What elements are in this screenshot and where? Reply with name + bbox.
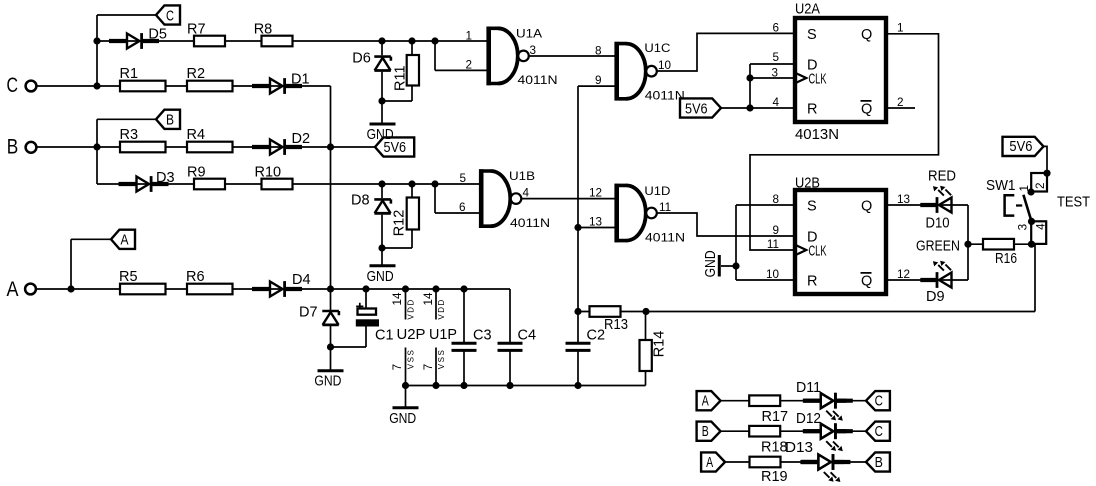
svg-text:R16: R16 bbox=[995, 251, 1017, 267]
svg-text:VSS: VSS bbox=[437, 349, 446, 370]
svg-text:S: S bbox=[807, 199, 817, 215]
svg-text:1: 1 bbox=[1018, 185, 1031, 192]
svg-text:C2: C2 bbox=[587, 328, 606, 344]
svg-text:D1: D1 bbox=[291, 72, 310, 88]
svg-text:2: 2 bbox=[897, 96, 904, 109]
svg-text:4011N: 4011N bbox=[518, 74, 558, 87]
svg-text:C1: C1 bbox=[375, 328, 394, 344]
svg-text:R4: R4 bbox=[187, 127, 206, 143]
svg-text:Q: Q bbox=[861, 274, 872, 290]
svg-text:C: C bbox=[875, 394, 883, 410]
svg-text:C3: C3 bbox=[473, 328, 492, 344]
svg-text:GND: GND bbox=[389, 411, 416, 427]
svg-text:A: A bbox=[702, 394, 709, 410]
svg-text:D2: D2 bbox=[292, 131, 311, 147]
svg-text:RED: RED bbox=[928, 169, 956, 185]
svg-text:D4: D4 bbox=[292, 272, 311, 288]
svg-text:C: C bbox=[7, 73, 19, 97]
svg-text:GND: GND bbox=[367, 269, 394, 285]
svg-text:R14: R14 bbox=[652, 331, 668, 358]
svg-text:B: B bbox=[166, 113, 174, 129]
svg-text:4011N: 4011N bbox=[510, 217, 550, 230]
svg-text:2: 2 bbox=[1034, 182, 1047, 189]
svg-text:R9: R9 bbox=[187, 165, 206, 181]
svg-text:4011N: 4011N bbox=[645, 90, 685, 103]
svg-text:R5: R5 bbox=[119, 269, 138, 285]
svg-text:R18: R18 bbox=[761, 439, 788, 455]
svg-text:VDD: VDD bbox=[437, 298, 446, 319]
svg-text:R19: R19 bbox=[761, 469, 788, 485]
svg-text:U1C: U1C bbox=[644, 42, 670, 55]
svg-text:4: 4 bbox=[523, 187, 530, 200]
svg-text:7: 7 bbox=[391, 364, 404, 371]
svg-text:D5: D5 bbox=[148, 27, 167, 43]
svg-text:R: R bbox=[807, 102, 817, 118]
svg-text:U1B: U1B bbox=[509, 170, 535, 183]
svg-text:1: 1 bbox=[465, 29, 472, 42]
svg-text:D11: D11 bbox=[796, 380, 821, 396]
svg-text:9: 9 bbox=[772, 224, 779, 237]
svg-text:D10: D10 bbox=[926, 216, 950, 232]
svg-text:Q: Q bbox=[861, 102, 872, 118]
svg-text:5V6: 5V6 bbox=[384, 140, 407, 156]
svg-text:S: S bbox=[807, 27, 817, 43]
svg-text:3: 3 bbox=[530, 44, 537, 57]
svg-text:CLK: CLK bbox=[809, 244, 827, 260]
svg-text:B: B bbox=[702, 424, 709, 440]
svg-text:U1D: U1D bbox=[644, 185, 670, 198]
svg-text:TEST: TEST bbox=[1057, 195, 1090, 211]
svg-text:D8: D8 bbox=[351, 193, 370, 209]
svg-text:D6: D6 bbox=[352, 51, 371, 67]
svg-text:10: 10 bbox=[766, 268, 780, 281]
svg-text:B: B bbox=[875, 455, 883, 471]
svg-text:VDD: VDD bbox=[407, 298, 416, 319]
svg-text:D7: D7 bbox=[299, 305, 318, 321]
svg-text:13: 13 bbox=[897, 193, 910, 206]
svg-text:5V6: 5V6 bbox=[685, 102, 708, 118]
svg-text:R: R bbox=[807, 274, 817, 290]
svg-text:4011N: 4011N bbox=[645, 231, 685, 244]
svg-text:8: 8 bbox=[772, 193, 779, 206]
svg-text:VSS: VSS bbox=[407, 349, 416, 370]
svg-text:U2B: U2B bbox=[795, 176, 820, 192]
svg-text:R13: R13 bbox=[604, 317, 628, 333]
svg-text:4: 4 bbox=[1034, 223, 1047, 230]
svg-text:R10: R10 bbox=[255, 165, 282, 181]
svg-text:R11: R11 bbox=[392, 65, 408, 91]
svg-text:R8: R8 bbox=[254, 22, 273, 38]
svg-text:R3: R3 bbox=[120, 127, 139, 143]
svg-text:R17: R17 bbox=[762, 409, 789, 425]
svg-text:5V6: 5V6 bbox=[1009, 139, 1032, 155]
svg-text:D13: D13 bbox=[785, 440, 813, 456]
svg-text:R2: R2 bbox=[187, 66, 206, 82]
svg-text:D12: D12 bbox=[796, 411, 821, 427]
svg-text:R12: R12 bbox=[391, 210, 407, 237]
svg-text:A: A bbox=[706, 455, 713, 471]
svg-text:11: 11 bbox=[659, 201, 671, 214]
svg-text:R6: R6 bbox=[186, 269, 205, 285]
svg-text:D9: D9 bbox=[926, 289, 945, 305]
svg-text:11: 11 bbox=[767, 238, 779, 251]
svg-text:GND: GND bbox=[314, 374, 341, 390]
svg-text:C4: C4 bbox=[518, 328, 537, 344]
svg-text:12: 12 bbox=[589, 187, 602, 200]
svg-text:8: 8 bbox=[595, 44, 602, 57]
svg-text:U1A: U1A bbox=[516, 27, 542, 40]
svg-text:GND: GND bbox=[703, 250, 719, 277]
svg-text:6: 6 bbox=[772, 21, 779, 34]
svg-text:Q: Q bbox=[861, 27, 872, 43]
svg-text:7: 7 bbox=[422, 364, 435, 371]
svg-text:10: 10 bbox=[658, 59, 672, 72]
svg-text:1: 1 bbox=[897, 21, 904, 34]
svg-text:D3: D3 bbox=[156, 170, 175, 186]
svg-text:CLK: CLK bbox=[809, 72, 827, 88]
svg-text:U2P: U2P bbox=[397, 327, 426, 343]
svg-text:C: C bbox=[875, 424, 883, 440]
svg-text:GREEN: GREEN bbox=[916, 239, 960, 255]
svg-text:U2A: U2A bbox=[795, 1, 820, 17]
svg-text:14: 14 bbox=[422, 292, 435, 306]
svg-text:14: 14 bbox=[391, 292, 404, 306]
svg-text:SW1: SW1 bbox=[986, 178, 1016, 194]
svg-text:C: C bbox=[166, 8, 174, 24]
svg-text:3: 3 bbox=[771, 66, 778, 79]
svg-text:5: 5 bbox=[772, 51, 779, 64]
svg-text:5: 5 bbox=[459, 172, 466, 185]
svg-text:A: A bbox=[7, 277, 20, 301]
svg-text:4013N: 4013N bbox=[795, 127, 839, 143]
svg-text:2: 2 bbox=[465, 59, 472, 72]
svg-text:R7: R7 bbox=[187, 22, 206, 38]
svg-text:A: A bbox=[121, 233, 129, 249]
svg-text:12: 12 bbox=[897, 268, 910, 281]
svg-text:R1: R1 bbox=[120, 66, 139, 82]
svg-text:B: B bbox=[7, 134, 18, 158]
svg-text:9: 9 bbox=[595, 74, 602, 87]
svg-text:4: 4 bbox=[772, 96, 779, 109]
svg-text:3: 3 bbox=[1017, 224, 1030, 231]
svg-text:U1P: U1P bbox=[429, 327, 457, 343]
svg-text:13: 13 bbox=[589, 216, 602, 229]
svg-text:Q: Q bbox=[861, 199, 872, 215]
svg-text:6: 6 bbox=[459, 201, 466, 214]
